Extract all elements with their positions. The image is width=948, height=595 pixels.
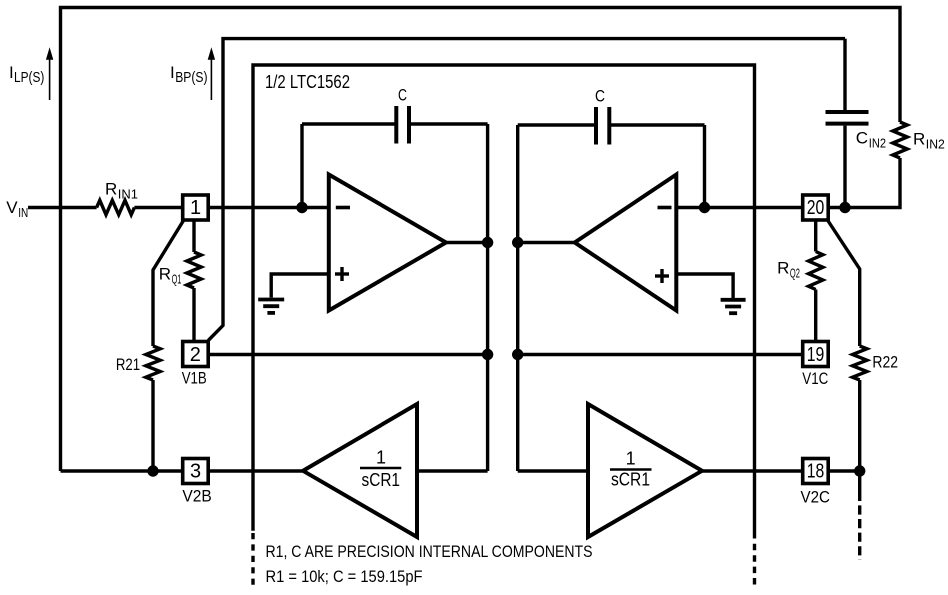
svg-text:IN: IN (18, 205, 28, 220)
svg-text:V1B: V1B (182, 369, 207, 388)
svg-text:LP(S): LP(S) (14, 70, 44, 86)
svg-text:I: I (170, 63, 175, 82)
svg-text:3: 3 (190, 461, 201, 483)
svg-text:2: 2 (190, 344, 201, 366)
svg-text:C: C (398, 87, 407, 105)
svg-text:1/2 LTC1562: 1/2 LTC1562 (265, 71, 350, 92)
svg-text:C: C (595, 88, 605, 106)
svg-text:19: 19 (807, 344, 825, 366)
svg-text:Q2: Q2 (790, 266, 800, 281)
svg-text:V2C: V2C (801, 488, 830, 507)
svg-text:R: R (913, 130, 925, 149)
svg-text:R: R (777, 259, 789, 278)
svg-text:C: C (856, 128, 868, 147)
svg-text:R: R (105, 180, 117, 199)
svg-text:IN2: IN2 (869, 135, 886, 150)
svg-text:V2B: V2B (182, 487, 211, 506)
svg-text:sCR1: sCR1 (611, 470, 650, 490)
svg-text:18: 18 (807, 461, 825, 483)
svg-text:1: 1 (376, 447, 386, 467)
svg-text:R1 = 10k; C = 159.15pF: R1 = 10k; C = 159.15pF (266, 567, 423, 586)
svg-text:1: 1 (626, 449, 636, 469)
svg-text:R: R (159, 265, 171, 284)
svg-text:IN1: IN1 (118, 187, 138, 202)
svg-text:BP(S): BP(S) (175, 70, 207, 86)
svg-text:1: 1 (190, 197, 201, 219)
svg-text:V1C: V1C (802, 369, 828, 388)
svg-text:sCR1: sCR1 (362, 470, 401, 490)
svg-text:IN2: IN2 (926, 137, 945, 152)
svg-text:20: 20 (807, 197, 825, 219)
svg-text:R22: R22 (872, 353, 898, 372)
svg-text:R21: R21 (116, 355, 140, 374)
svg-text:Q1: Q1 (172, 272, 182, 287)
svg-text:V: V (6, 198, 18, 217)
svg-text:R1, C ARE PRECISION INTERNAL C: R1, C ARE PRECISION INTERNAL COMPONENTS (266, 542, 593, 561)
